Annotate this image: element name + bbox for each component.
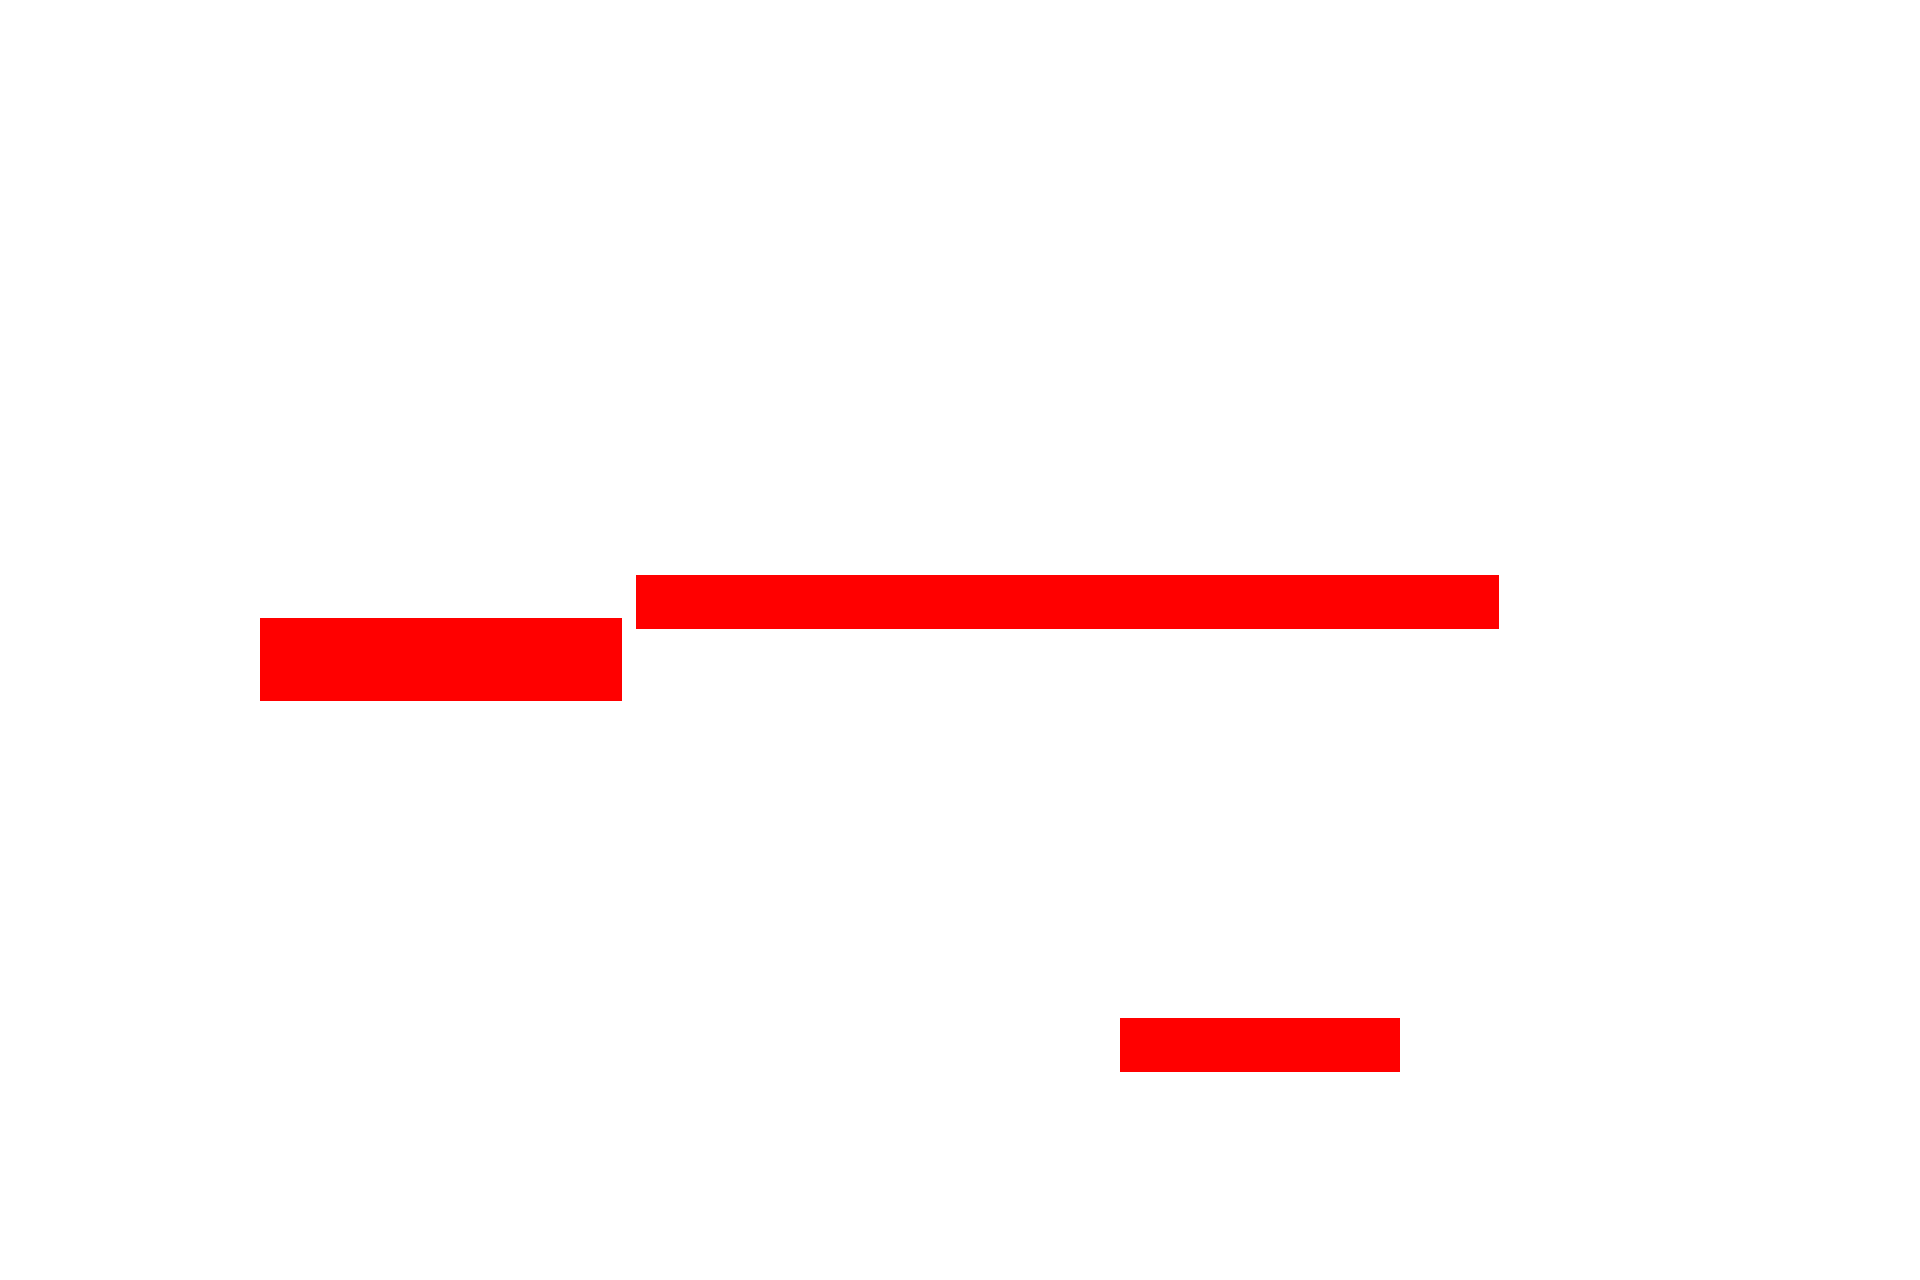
red block lower center	[1120, 1018, 1400, 1072]
red block left	[260, 618, 622, 701]
red block top center	[636, 575, 1499, 629]
